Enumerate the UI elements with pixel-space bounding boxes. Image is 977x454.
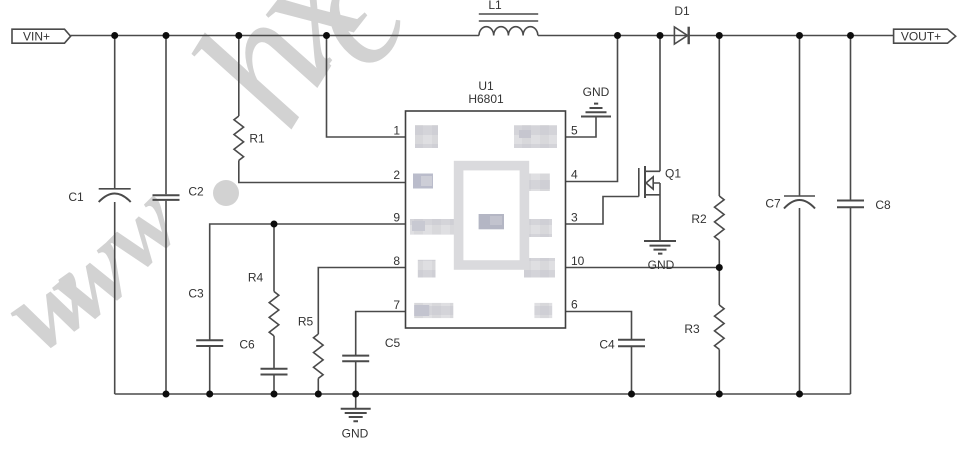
svg-text:Q1: Q1 xyxy=(665,167,681,181)
svg-text:R3: R3 xyxy=(684,322,700,336)
svg-text:C2: C2 xyxy=(188,185,204,199)
svg-text:R5: R5 xyxy=(298,315,314,329)
svg-text:U1: U1 xyxy=(478,79,494,93)
svg-text:1: 1 xyxy=(393,124,400,138)
svg-text:C8: C8 xyxy=(875,198,891,212)
svg-text:R4: R4 xyxy=(248,271,264,285)
svg-text:L1: L1 xyxy=(488,0,502,12)
svg-text:C4: C4 xyxy=(599,338,615,352)
svg-text:H6801: H6801 xyxy=(468,92,504,106)
svg-text:R1: R1 xyxy=(249,132,265,146)
svg-text:VOUT+: VOUT+ xyxy=(901,30,941,44)
svg-text:C6: C6 xyxy=(239,338,255,352)
svg-text:2: 2 xyxy=(393,168,400,182)
svg-text:6: 6 xyxy=(571,298,578,312)
svg-text:GND: GND xyxy=(583,85,610,99)
svg-text:R2: R2 xyxy=(691,212,707,226)
svg-text:9: 9 xyxy=(393,211,400,225)
svg-text:C5: C5 xyxy=(385,336,401,350)
svg-text:8: 8 xyxy=(393,254,400,268)
svg-text:C1: C1 xyxy=(68,190,84,204)
svg-text:3: 3 xyxy=(571,211,578,225)
svg-text:5: 5 xyxy=(571,124,578,138)
svg-text:10: 10 xyxy=(571,254,585,268)
svg-text:C3: C3 xyxy=(188,287,204,301)
svg-text:D1: D1 xyxy=(674,4,690,18)
svg-text:VIN+: VIN+ xyxy=(23,30,50,44)
svg-text:GND: GND xyxy=(342,427,369,441)
svg-text:4: 4 xyxy=(571,168,578,182)
svg-text:7: 7 xyxy=(393,298,400,312)
svg-text:GND: GND xyxy=(648,258,675,272)
svg-text:C7: C7 xyxy=(765,197,781,211)
